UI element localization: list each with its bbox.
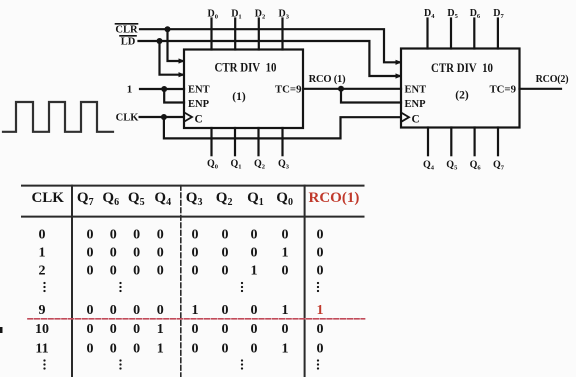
wire LD branch into counter 1: [160, 41, 184, 75]
svg-text:0: 0: [192, 341, 199, 356]
svg-text:0: 0: [192, 245, 199, 260]
junction dot RCO(1): [338, 86, 344, 92]
svg-text:0: 0: [87, 227, 94, 242]
svg-text:CLR: CLR: [115, 25, 138, 36]
pin Q4 counter 2: [423, 128, 435, 172]
svg-text:0: 0: [192, 264, 199, 279]
svg-text:Q1: Q1: [231, 158, 242, 170]
counter U1 clock input C: [185, 113, 193, 122]
pin D5 counter 2: [447, 8, 458, 49]
svg-text:10: 10: [35, 322, 49, 337]
counter U2 clock input C: [402, 113, 410, 122]
svg-text:0: 0: [110, 341, 117, 356]
pin Q3 counter 1: [278, 128, 290, 171]
svg-text:0: 0: [192, 227, 199, 242]
pin Q5 counter 2: [446, 128, 458, 172]
svg-text:1: 1: [39, 245, 46, 260]
wire RCO(1) from TC=9 to counter 2 ENT: [303, 88, 401, 90]
svg-text:0: 0: [251, 341, 258, 356]
pin D2 counter 1: [255, 8, 265, 49]
table top border: [22, 185, 364, 187]
svg-text:0: 0: [251, 245, 258, 260]
svg-text:0: 0: [87, 341, 94, 356]
svg-text:0: 0: [222, 322, 229, 337]
pin D0 counter 1: [208, 8, 218, 49]
svg-text:ENT: ENT: [405, 85, 427, 96]
svg-text:C: C: [412, 113, 420, 125]
svg-text:D7: D7: [493, 8, 504, 20]
svg-text:Q4: Q4: [154, 190, 171, 208]
svg-text:0: 0: [157, 303, 164, 318]
svg-text:0: 0: [87, 322, 94, 337]
red dashed divider between count 9 and 10: [28, 318, 365, 320]
stray mark at left edge: [0, 327, 3, 333]
svg-text:Q6: Q6: [470, 159, 482, 171]
svg-text:0: 0: [87, 245, 94, 260]
row count 11: [35, 341, 323, 356]
row count 9: [39, 303, 324, 318]
row count 10: [35, 322, 324, 337]
svg-text:0: 0: [222, 245, 229, 260]
svg-text:Q2: Q2: [216, 190, 233, 208]
svg-text:D0: D0: [208, 8, 218, 20]
wire CLR branch into counter 1: [168, 29, 184, 61]
clock waveform: [3, 102, 113, 132]
svg-text:TC=9: TC=9: [489, 84, 516, 96]
svg-text:0: 0: [157, 264, 164, 279]
svg-text:1: 1: [157, 341, 164, 356]
svg-text:0: 0: [110, 227, 117, 242]
wire CLR bus to counter 2: [140, 29, 400, 62]
svg-text:LD: LD: [121, 37, 136, 48]
svg-text:Q0: Q0: [207, 158, 218, 170]
svg-text:CLK: CLK: [31, 190, 64, 206]
entry mark CLR counter 2: [396, 60, 403, 65]
svg-text:Q3: Q3: [186, 190, 203, 208]
svg-text:1: 1: [282, 341, 289, 356]
svg-text:Q7: Q7: [77, 190, 94, 208]
table vertical line after CLK: [71, 186, 73, 377]
junction dot CLR: [165, 26, 171, 32]
svg-text:0: 0: [110, 303, 117, 318]
svg-text:Q4: Q4: [423, 159, 435, 171]
svg-text:0: 0: [157, 227, 164, 242]
svg-text:0: 0: [133, 227, 140, 242]
table vertical line before RCO: [304, 186, 306, 377]
svg-text:0: 0: [222, 264, 229, 279]
ellipsis dots row 2: [43, 359, 319, 369]
svg-text:0: 0: [133, 303, 140, 318]
counter U2 box CTR DIV 10 (2): [401, 49, 520, 128]
svg-text:Q6: Q6: [102, 190, 119, 208]
svg-text:0: 0: [110, 245, 117, 260]
pin D7 counter 2: [493, 8, 504, 49]
svg-text:Q5: Q5: [446, 159, 458, 171]
wire CLK routed to C counter 2: [164, 117, 400, 138]
svg-text:9: 9: [39, 303, 46, 318]
svg-text:0: 0: [157, 245, 164, 260]
svg-text:CLK: CLK: [116, 113, 140, 124]
svg-text:1: 1: [317, 303, 324, 318]
pin D4 counter 2: [424, 8, 435, 49]
svg-text:0: 0: [282, 264, 289, 279]
svg-text:D2: D2: [255, 8, 265, 20]
table header underline: [22, 216, 364, 218]
row count 1: [39, 245, 324, 260]
svg-text:RCO (1): RCO (1): [309, 74, 347, 85]
svg-text:0: 0: [251, 227, 258, 242]
wire RCO(2) output: [520, 88, 562, 90]
svg-text:0: 0: [251, 322, 258, 337]
svg-text:1: 1: [282, 303, 289, 318]
ellipsis dots row 1: [43, 282, 319, 292]
svg-text:0: 0: [110, 264, 117, 279]
wire 1 to ENT counter 1: [140, 88, 184, 90]
svg-text:0: 0: [133, 322, 140, 337]
svg-text:(2): (2): [455, 90, 469, 102]
entry mark LD counter 2: [396, 73, 403, 78]
svg-text:0: 0: [251, 303, 258, 318]
wire CLK to C counter 1: [140, 116, 183, 118]
entry mark LD counter 1: [179, 72, 186, 77]
pin Q0 counter 1: [207, 128, 218, 171]
counter U1 box CTR DIV 10 (1): [184, 50, 303, 129]
svg-text:2: 2: [39, 264, 46, 279]
svg-text:0: 0: [133, 245, 140, 260]
junction dot ENT counter 1: [161, 86, 167, 92]
label LD (active-low, overbar): [120, 36, 136, 48]
wire branch ENT to ENP counter 1: [164, 89, 184, 103]
entry mark CLR counter 1: [179, 58, 186, 63]
svg-text:0: 0: [317, 245, 324, 260]
row count 2: [39, 264, 324, 279]
label CLR (active-low, overbar): [115, 24, 138, 36]
svg-text:0: 0: [282, 322, 289, 337]
junction dot LD: [157, 38, 163, 44]
svg-text:Q7: Q7: [493, 159, 505, 171]
pin D3 counter 1: [279, 8, 290, 49]
pin D6 counter 2: [470, 8, 481, 49]
svg-text:1: 1: [282, 245, 289, 260]
svg-text:Q1: Q1: [247, 190, 264, 208]
svg-text:1: 1: [127, 84, 133, 96]
svg-text:Q0: Q0: [276, 190, 293, 208]
svg-text:CTR DIV 10: CTR DIV 10: [431, 60, 493, 75]
svg-text:0: 0: [133, 264, 140, 279]
pin Q2 counter 1: [254, 128, 265, 171]
svg-text:0: 0: [317, 322, 324, 337]
svg-text:0: 0: [222, 303, 229, 318]
svg-text:D1: D1: [231, 8, 241, 20]
pin Q6 counter 2: [470, 128, 482, 172]
svg-text:0: 0: [317, 227, 324, 242]
svg-text:1: 1: [192, 303, 199, 318]
svg-text:TC=9: TC=9: [275, 84, 302, 96]
svg-text:0: 0: [282, 227, 289, 242]
svg-text:CTR DIV 10: CTR DIV 10: [215, 60, 277, 75]
junction dot CLK: [161, 114, 167, 120]
svg-text:0: 0: [39, 227, 46, 242]
row count 0: [39, 227, 324, 242]
svg-text:ENP: ENP: [405, 99, 427, 110]
svg-text:ENP: ENP: [188, 99, 210, 110]
table dashed vertical line between Q4 and Q3: [180, 186, 182, 377]
svg-text:(1): (1): [232, 91, 246, 103]
svg-text:0: 0: [317, 341, 324, 356]
svg-text:Q5: Q5: [128, 190, 145, 208]
svg-text:0: 0: [87, 264, 94, 279]
wire branch RCO(1) to ENP counter 2: [341, 89, 401, 103]
pin Q1 counter 1: [231, 128, 242, 171]
svg-text:0: 0: [222, 227, 229, 242]
svg-text:1: 1: [251, 264, 258, 279]
svg-text:0: 0: [222, 341, 229, 356]
svg-text:RCO(1): RCO(1): [309, 190, 360, 206]
svg-text:0: 0: [192, 322, 199, 337]
pin Q7 counter 2: [493, 128, 505, 172]
svg-text:1: 1: [157, 322, 164, 337]
svg-text:Q2: Q2: [254, 158, 265, 170]
table data rows: [35, 227, 324, 356]
svg-text:D6: D6: [470, 8, 481, 20]
pin D1 counter 1: [231, 8, 241, 49]
svg-text:D5: D5: [447, 8, 458, 20]
svg-text:0: 0: [87, 303, 94, 318]
svg-text:D4: D4: [424, 8, 435, 20]
svg-text:11: 11: [35, 341, 48, 356]
svg-text:0: 0: [133, 341, 140, 356]
svg-text:ENT: ENT: [188, 85, 210, 96]
svg-text:D3: D3: [279, 8, 290, 20]
svg-text:RCO(2): RCO(2): [536, 74, 569, 85]
svg-text:0: 0: [317, 264, 324, 279]
svg-text:0: 0: [110, 322, 117, 337]
svg-text:C: C: [195, 113, 203, 125]
wire LD bus to counter 2: [139, 41, 400, 76]
svg-text:Q3: Q3: [278, 158, 290, 170]
